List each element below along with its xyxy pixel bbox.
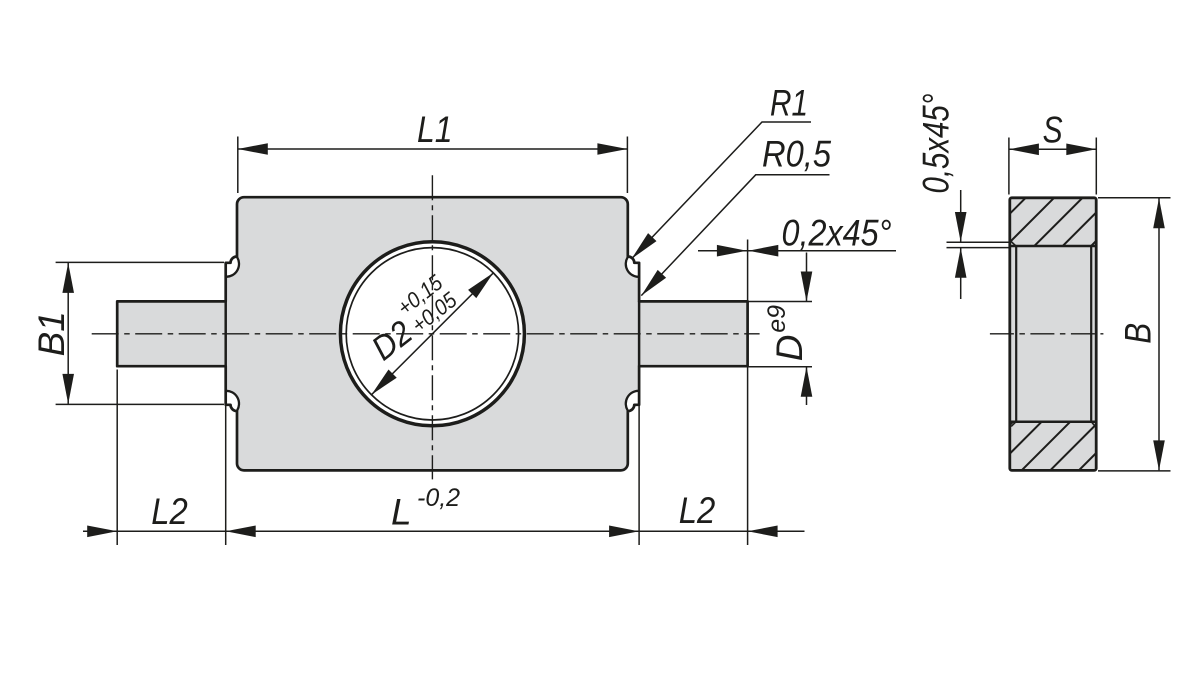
svg-text:D: D [769, 335, 810, 362]
side view outline [1010, 198, 1096, 471]
relief groove crescent left-top [226, 257, 239, 277]
bore bottom edge line [1010, 421, 1096, 424]
undercut arc right-bottom [626, 391, 639, 411]
dimension B extension lines [1098, 197, 1171, 199]
bore chamfer edge left [1015, 246, 1017, 422]
dimension D extension lines [749, 301, 813, 303]
svg-text:L1: L1 [417, 109, 453, 150]
shaft/collar junction line right [638, 301, 641, 366]
chamfer 0,2x45 dimension line [698, 250, 896, 252]
dimension S line [1009, 148, 1096, 150]
svg-text:L2: L2 [151, 491, 188, 532]
hatching bottom band [915, 90, 1200, 520]
dimension L1 extension lines [237, 137, 239, 194]
bore D2 outer circle [340, 242, 524, 426]
bore top edge line [1010, 245, 1096, 248]
svg-text:0,2x45°: 0,2x45° [782, 213, 892, 254]
relief groove crescent left-bottom [226, 391, 239, 411]
svg-text:0,5x45°: 0,5x45° [916, 94, 957, 194]
svg-text:L2: L2 [679, 490, 716, 531]
relief groove crescent right-top [626, 257, 639, 277]
dimension D2 diameter line [371, 273, 493, 395]
leader R1 [632, 122, 811, 259]
svg-text:L: L [391, 492, 412, 533]
chamfer 0,5x45 arrow lines [960, 190, 962, 242]
bore D2 chamfer circle [346, 248, 518, 420]
chamfer 0,5x45 extension lines [947, 241, 1012, 243]
vertical center line main view [431, 175, 433, 479]
bottom dimension extension lines [116, 370, 118, 546]
undercut arc left-bottom [226, 391, 239, 411]
dimension D2 with tolerances text [357, 269, 464, 368]
dimension B1 line [67, 263, 69, 404]
dimension L1 line [238, 148, 628, 150]
side view disc section [1010, 198, 1096, 471]
undercut arc right-top [626, 257, 639, 277]
svg-text:-0,2: -0,2 [417, 484, 460, 512]
dimension D e9 text [763, 305, 810, 361]
dimension B line [1158, 198, 1160, 470]
part body silhouette (block + journals) [117, 197, 747, 470]
shaft/collar junction line left [224, 301, 227, 366]
svg-text:B1: B1 [31, 311, 72, 356]
part outline stroke [117, 197, 747, 470]
svg-text:B: B [1118, 323, 1159, 344]
bore chamfer edge right [1090, 246, 1092, 422]
horizontal center line side view [990, 333, 1104, 335]
leader R0,5 [641, 175, 829, 296]
dimension S extension lines [1008, 138, 1010, 195]
svg-text:R0,5: R0,5 [762, 134, 831, 175]
svg-text:R1: R1 [770, 83, 808, 124]
bore chamfer diagonals [1011, 242, 1016, 247]
relief groove crescent right-bottom [626, 391, 639, 411]
dimension B1 extension lines [56, 261, 224, 263]
bottom dimension line [83, 530, 805, 532]
dimension D line [806, 253, 808, 302]
horizontal center line main view [92, 333, 760, 335]
undercut arc R1/R0,5 left-top [226, 257, 239, 277]
hatching top band [704, 90, 1200, 520]
svg-text:S: S [1043, 109, 1063, 150]
svg-text:e9: e9 [763, 305, 791, 333]
